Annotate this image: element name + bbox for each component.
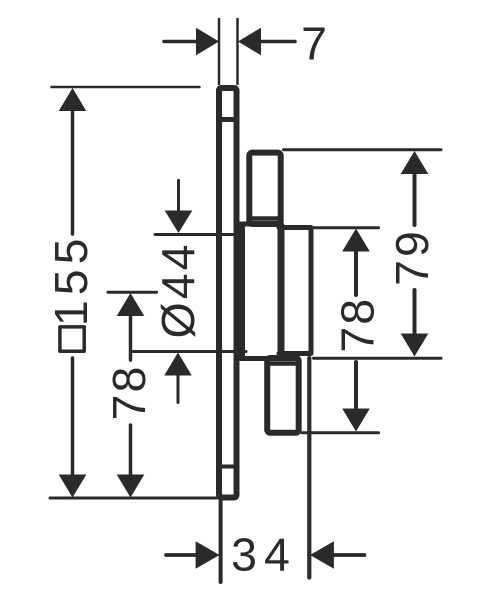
- dim 79: bottom extension line: [314, 357, 442, 360]
- dim 155: down arrow: [71, 358, 75, 476]
- valve body left edge (thick): [237, 226, 245, 358]
- dim 79: down arrow: [413, 290, 417, 334]
- lower function block: [267, 358, 299, 433]
- valve body right edge (thick): [278, 226, 285, 358]
- plate inner shoulder line bottom: [222, 465, 235, 469]
- dim 78 left: extension line: [108, 291, 157, 294]
- lower block inner line: [270, 361, 296, 366]
- dim 34: right extension line: [307, 358, 311, 578]
- valve body (basic set, centre): [240, 224, 281, 359]
- svg-text:7: 7: [301, 18, 327, 70]
- svg-text:Ø44: Ø44: [152, 242, 204, 339]
- plate inner shoulder line top: [222, 117, 235, 122]
- dim 78 right: bottom extension line: [302, 431, 379, 434]
- dim 44: upper line: [155, 233, 237, 236]
- sleeve behind valve body: [279, 228, 311, 354]
- dim 155: top extension line: [52, 86, 200, 89]
- dim 79: up arrow: [401, 151, 429, 174]
- svg-text:34: 34: [231, 529, 297, 581]
- dim 7: left arrow: [164, 40, 197, 44]
- dim 155: bottom extension line: [50, 497, 217, 500]
- dim 78 left: up arrow: [117, 293, 145, 316]
- dim 7: left extension line: [218, 19, 221, 84]
- dim 34: left arrow: [166, 553, 196, 557]
- dim 78 right: up arrow: [342, 229, 370, 252]
- dim 44: lower line: [133, 350, 246, 353]
- svg-text:155: 155: [45, 234, 97, 327]
- dim 7: right extension line: [236, 19, 239, 84]
- dim 155: up arrow: [59, 88, 87, 111]
- dim 78 right: down arrow: [354, 362, 358, 408]
- svg-text:79: 79: [386, 228, 438, 286]
- upper block inner line: [253, 216, 278, 221]
- dim 34: right arrow: [310, 541, 334, 569]
- svg-text:78: 78: [103, 365, 155, 421]
- dim 155: square symbol: [60, 327, 84, 351]
- dim 79: top extension line: [284, 148, 442, 151]
- svg-text:78: 78: [331, 297, 383, 353]
- dim 78 right: top extension line: [313, 226, 379, 229]
- dim 44: upper arrow: [177, 181, 180, 213]
- dim 78 left: down arrow: [129, 425, 133, 476]
- upper function block: [249, 153, 280, 224]
- wall plate (side view, square 155): [219, 88, 237, 498]
- dim 44: lower arrow: [164, 353, 192, 376]
- dim 7: right arrow: [238, 28, 261, 56]
- dim 34: left extension line: [219, 500, 223, 582]
